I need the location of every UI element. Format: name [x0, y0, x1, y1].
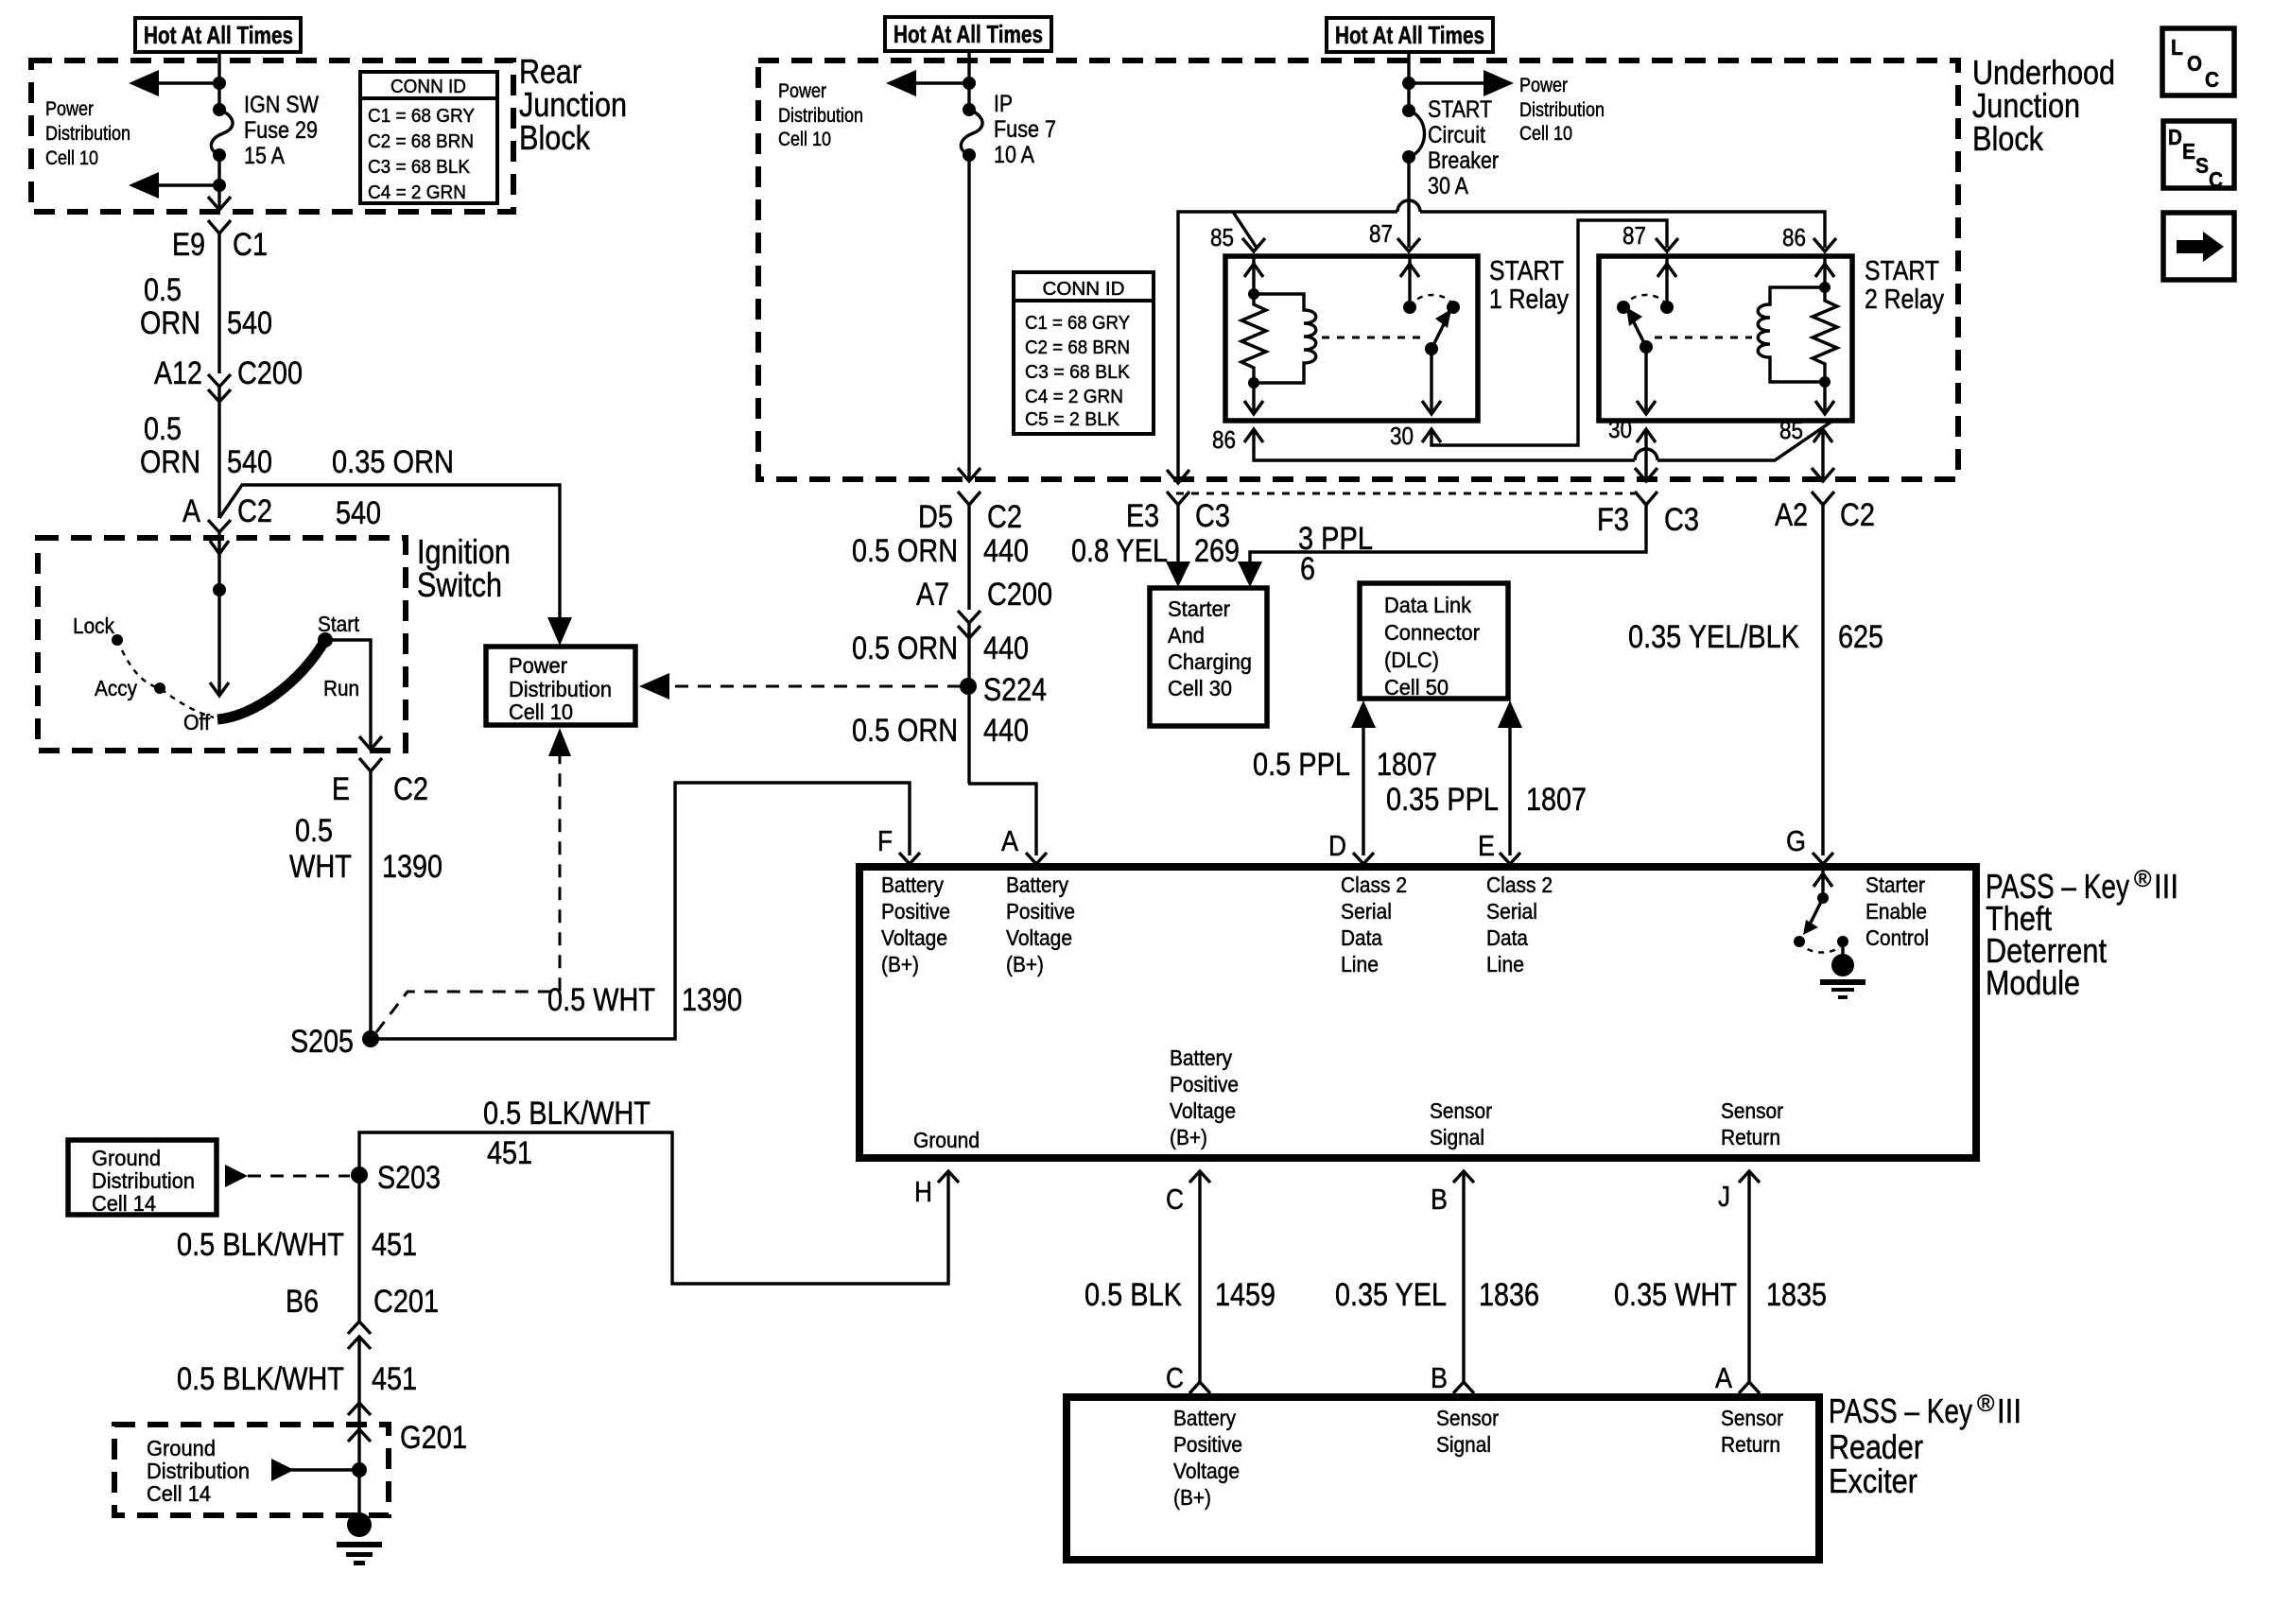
svg-text:C3: C3: [1664, 502, 1699, 538]
label 0.5 BLK/WHT 451 (mid): [177, 1227, 417, 1263]
svg-text:A7: A7: [916, 577, 949, 613]
rear junction block dashed box: [31, 60, 513, 212]
svg-text:G201: G201: [400, 1420, 467, 1456]
label 0.35 ORN 540: [332, 444, 454, 531]
svg-text:C200: C200: [237, 355, 303, 391]
connector C2 pin E chevron: [332, 758, 428, 807]
svg-text:F3: F3: [1597, 502, 1629, 538]
label class 2 serial data line E: [1486, 872, 1553, 976]
label Power Distribution Cell 10 (underhood left): [778, 80, 863, 150]
label 0.5 WHT 1390 (vertical run): [289, 813, 442, 885]
svg-text:451: 451: [372, 1361, 417, 1397]
wire 451 S203 down: [357, 1175, 360, 1321]
svg-text:Cell 10: Cell 10: [509, 700, 573, 724]
svg-text:Connector: Connector: [1384, 620, 1480, 645]
pin D chevron: [1328, 829, 1374, 864]
connector C200 pin A7 double chevron: [916, 577, 1052, 638]
svg-text:1835: 1835: [1766, 1277, 1827, 1313]
svg-text:Power: Power: [778, 80, 826, 102]
label battery positive voltage (reader C): [1173, 1406, 1242, 1510]
svg-text:Starter: Starter: [1168, 596, 1230, 621]
svg-text:S203: S203: [377, 1160, 441, 1196]
svg-text:C4 = 2 GRN: C4 = 2 GRN: [1025, 387, 1123, 407]
wire 440 to module pin A: [968, 784, 1036, 855]
svg-text:86: 86: [1782, 223, 1806, 251]
label 0.5 ORN 440 (1): [852, 533, 1029, 569]
svg-text:Line: Line: [1486, 952, 1524, 976]
svg-text:30: 30: [1390, 422, 1414, 450]
svg-text:Fuse 7: Fuse 7: [994, 116, 1056, 143]
svg-text:1459: 1459: [1215, 1277, 1275, 1313]
svg-text:B: B: [1431, 1183, 1448, 1216]
connector C1 chevron: [208, 220, 231, 233]
svg-text:Distribution: Distribution: [509, 677, 612, 701]
svg-text:0.5: 0.5: [144, 411, 182, 447]
svg-text:1807: 1807: [1377, 747, 1437, 783]
svg-text:0.5 ORN: 0.5 ORN: [852, 533, 958, 569]
ignition rotary contacts Lock Accy Off Start: [112, 632, 333, 719]
splice S205: [290, 1024, 379, 1060]
svg-text:D: D: [1328, 829, 1346, 862]
ground G201 dashed box: [114, 1420, 467, 1515]
label 0.5 BLK/WHT 451 (bottom): [177, 1361, 417, 1397]
svg-text:87: 87: [1622, 221, 1646, 250]
label battery positive voltage F: [881, 872, 950, 976]
svg-text:440: 440: [983, 533, 1029, 569]
svg-text:Block: Block: [519, 118, 591, 157]
fuse IP Fuse 7 symbol: [961, 103, 982, 162]
node junction dot lower: [213, 179, 226, 192]
svg-text:0.5 BLK/WHT: 0.5 BLK/WHT: [177, 1227, 344, 1263]
svg-text:E: E: [2182, 139, 2195, 164]
svg-text:1390: 1390: [382, 849, 442, 885]
svg-text:Distribution: Distribution: [778, 105, 863, 127]
svg-text:451: 451: [487, 1135, 532, 1171]
svg-text:Cell 10: Cell 10: [778, 129, 831, 150]
svg-text:A: A: [1001, 824, 1018, 857]
svg-text:C: C: [1166, 1361, 1184, 1394]
label 0.5 PPL 1807: [1253, 747, 1437, 783]
svg-text:0.8 YEL: 0.8 YEL: [1071, 533, 1168, 569]
label IGN SW Fuse 29 15 A: [244, 92, 319, 169]
svg-text:J: J: [1718, 1180, 1730, 1213]
label 3 PPL 6: [1298, 521, 1373, 587]
svg-text:Signal: Signal: [1430, 1125, 1484, 1149]
svg-text:C2 = 68 BRN: C2 = 68 BRN: [368, 131, 474, 152]
svg-text:Start: Start: [318, 612, 360, 636]
data link connector box: [1360, 583, 1508, 700]
connector C2 pin A2 chevron: [1775, 492, 1875, 533]
label IP Fuse 7 10 A: [994, 91, 1056, 168]
circuit breaker 30A symbol: [1402, 104, 1425, 164]
svg-text:B: B: [1431, 1361, 1448, 1394]
wire breaker to relay1 pin 87: [1407, 157, 1410, 248]
svg-text:A: A: [1715, 1361, 1732, 1394]
svg-text:Power: Power: [509, 653, 567, 678]
svg-text:Sensor: Sensor: [1721, 1098, 1783, 1123]
svg-text:C201: C201: [373, 1284, 439, 1320]
svg-text:86: 86: [1212, 425, 1236, 454]
node G201 junction dot: [352, 1462, 367, 1477]
CONN ID table (rear JB): [360, 72, 497, 203]
wire start contact to ignition box exit: [325, 640, 382, 750]
label 0.5 BLK 1459: [1084, 1277, 1275, 1313]
fuse F29 symbol: [211, 103, 233, 162]
connector C201 pin B6 double chevron: [286, 1284, 439, 1349]
svg-text:0.5 BLK/WHT: 0.5 BLK/WHT: [483, 1096, 651, 1132]
pin E chevron: [1478, 829, 1520, 864]
svg-text:Enable: Enable: [1865, 899, 1927, 924]
svg-text:G: G: [1786, 824, 1806, 857]
svg-text:Battery: Battery: [1170, 1045, 1232, 1070]
label 0.35 PPL 1807: [1386, 782, 1587, 818]
svg-text:Hot At All Times: Hot At All Times: [1335, 21, 1484, 49]
wire ground dist arrow to G201 node: [271, 1459, 357, 1481]
underhood junction block dashed box: [758, 60, 1958, 479]
svg-text:Cell 10: Cell 10: [1519, 123, 1572, 145]
icon DESC box: [2163, 121, 2234, 192]
svg-text:0.5: 0.5: [295, 813, 333, 849]
label Rear Junction Block: [519, 52, 627, 157]
svg-text:IGN SW: IGN SW: [244, 92, 319, 118]
svg-text:Accy: Accy: [95, 676, 137, 700]
svg-text:PASS – Key: PASS – Key: [1829, 1391, 1972, 1430]
pin G chevron: [1786, 824, 1833, 864]
svg-text:15 A: 15 A: [244, 143, 285, 169]
label sensor signal B: [1430, 1098, 1492, 1149]
svg-text:C1: C1: [233, 227, 268, 263]
svg-text:D: D: [2168, 125, 2182, 149]
svg-text:C: C: [2205, 67, 2219, 92]
hot-at-all-times box 3: [1327, 18, 1493, 52]
relay2 switch: [1617, 256, 1676, 414]
wire 3 PPL 6 from F3 to starter cell: [1238, 505, 1646, 587]
label PASS-Key III reader exciter: [1829, 1391, 2021, 1500]
pin 87 chevron relay2: [1622, 221, 1678, 251]
relay2 coil inductor: [1758, 287, 1825, 382]
wire 451 S203 to module pin H: [359, 1132, 948, 1284]
svg-text:III: III: [2154, 867, 2178, 906]
label Off: [183, 710, 211, 734]
node ignition feed dot: [213, 583, 226, 596]
svg-text:1 Relay: 1 Relay: [1489, 285, 1569, 315]
svg-text:0.5 BLK/WHT: 0.5 BLK/WHT: [177, 1361, 344, 1397]
svg-text:C1 = 68 GRY: C1 = 68 GRY: [1025, 313, 1130, 334]
svg-text:269: 269: [1194, 533, 1240, 569]
svg-text:Battery: Battery: [1173, 1406, 1236, 1430]
dashed wire ground dist to S203 with arrowhead: [225, 1165, 350, 1187]
label Underhood Junction Block: [1972, 53, 2115, 158]
svg-text:C3: C3: [1195, 498, 1230, 534]
label starter enable control: [1865, 872, 1929, 950]
svg-text:0.35 YEL: 0.35 YEL: [1335, 1277, 1447, 1313]
dashed wire from S205 up into PDC box bottom: [376, 728, 571, 1032]
wire 540 segment 2: [217, 387, 220, 518]
svg-text:Run: Run: [323, 676, 359, 700]
svg-text:(DLC): (DLC): [1384, 648, 1439, 672]
wire relay2 pin30 down to F3: [1635, 430, 1657, 481]
svg-text:Distribution: Distribution: [45, 123, 130, 145]
svg-text:C2: C2: [393, 771, 428, 807]
pass-key III reader exciter box: [1067, 1397, 1819, 1560]
svg-text:0.35 YEL/BLK: 0.35 YEL/BLK: [1628, 619, 1799, 655]
svg-text:ORN: ORN: [140, 444, 200, 480]
svg-text:O: O: [2187, 51, 2202, 76]
relay1 resistor: [1241, 294, 1266, 383]
connector C3 pin E3 chevron: [1126, 492, 1230, 534]
svg-text:Battery: Battery: [1006, 872, 1068, 897]
svg-text:Off: Off: [183, 710, 211, 734]
label 0.35 WHT 1835: [1614, 1277, 1827, 1313]
svg-text:Breaker: Breaker: [1428, 147, 1499, 174]
svg-text:L: L: [2171, 35, 2183, 60]
svg-text:B6: B6: [286, 1284, 319, 1320]
svg-text:Fuse 29: Fuse 29: [244, 117, 318, 144]
pin A chevron: [1001, 824, 1047, 864]
label sensor signal (reader B): [1436, 1406, 1499, 1457]
svg-text:C3 = 68 BLK: C3 = 68 BLK: [1025, 362, 1131, 383]
label battery positive voltage C: [1170, 1045, 1239, 1149]
wire hot2 into underhood box: [967, 51, 970, 110]
label E9 C1: [172, 227, 268, 263]
svg-text:Hot At All Times: Hot At All Times: [144, 21, 293, 49]
svg-text:(B+): (B+): [881, 952, 919, 976]
svg-text:E: E: [1478, 829, 1495, 862]
svg-text:Cell 50: Cell 50: [1384, 675, 1449, 700]
pin 85 chevron relay1: [1210, 223, 1265, 251]
label C reader pin: [1166, 1361, 1184, 1394]
pin 87 chevron relay1: [1369, 219, 1420, 251]
svg-text:0.35 PPL: 0.35 PPL: [1386, 782, 1499, 818]
svg-text:F: F: [877, 824, 893, 857]
svg-text:E3: E3: [1126, 498, 1159, 534]
svg-text:Switch: Switch: [417, 565, 502, 604]
label sensor return J: [1721, 1098, 1783, 1149]
label Power Distribution Cell 10 (breaker feed): [1519, 75, 1605, 145]
svg-text:®: ®: [1977, 1391, 1995, 1417]
svg-text:Positive: Positive: [1170, 1072, 1239, 1097]
power distribution cell 10 box: [486, 647, 635, 725]
svg-text:Power: Power: [1519, 75, 1568, 96]
wire left feed lower with arrowhead: [129, 172, 219, 199]
connector C200 double chevron: [154, 355, 303, 402]
svg-text:1836: 1836: [1479, 1277, 1539, 1313]
svg-text:30: 30: [1608, 415, 1632, 443]
node junction dot ip feed: [963, 77, 976, 90]
svg-text:Ground: Ground: [913, 1128, 980, 1152]
pass-key III theft deterrent module box: [859, 867, 1976, 1158]
pin 86 chevron relay1 bottom: [1212, 425, 1263, 454]
ground symbol starter enable: [1820, 942, 1865, 999]
wire bus y224 E3 to relay2 86 with hop: [1167, 200, 1825, 483]
icon LOC box: [2162, 28, 2234, 95]
svg-text:H: H: [914, 1175, 932, 1208]
svg-text:Line: Line: [1341, 952, 1379, 976]
wire relay2 pin85 diagonal to relay1 pin86 with hop: [1254, 422, 1831, 460]
wire 0.5 BLK 1459 pin C: [1189, 1173, 1210, 1393]
label A reader pin: [1715, 1361, 1732, 1394]
wire relay1 pin30 to relay2 pin87: [1431, 220, 1667, 445]
svg-text:C: C: [1166, 1183, 1184, 1216]
svg-text:540: 540: [227, 444, 272, 480]
label Ignition Switch: [417, 532, 511, 604]
splice S224: [960, 672, 1047, 708]
svg-text:Starter: Starter: [1865, 872, 1925, 897]
svg-text:Ground: Ground: [147, 1436, 216, 1460]
node junction dot upper: [213, 77, 226, 90]
svg-text:Circuit: Circuit: [1428, 122, 1485, 148]
svg-text:Power: Power: [45, 98, 94, 120]
svg-text:540: 540: [227, 305, 272, 341]
start 1 relay box: [1225, 256, 1478, 421]
pin F chevron: [877, 824, 920, 864]
label 0.5 ORN 440 (2): [852, 631, 1029, 666]
svg-text:Class 2: Class 2: [1486, 872, 1553, 897]
hot-at-all-times box 1: [135, 18, 301, 52]
svg-text:Ground: Ground: [92, 1146, 161, 1170]
wire into ignition switch with arrowhead: [210, 532, 229, 696]
svg-text:C2 = 68 BRN: C2 = 68 BRN: [1025, 337, 1130, 358]
label 0.5 ORN 540 (2): [140, 411, 272, 480]
svg-text:Exciter: Exciter: [1829, 1461, 1917, 1500]
svg-text:2 Relay: 2 Relay: [1865, 285, 1944, 315]
wire 0.35 YEL/BLK 625 A2 to pin G: [1821, 505, 1824, 855]
connector C2 pin A with branch slash: [182, 493, 272, 532]
wire 540 segment 1: [217, 233, 220, 373]
svg-text:III: III: [1997, 1391, 2021, 1430]
label Run: [323, 676, 359, 700]
wire from Hot box into rear JB: [217, 52, 220, 110]
starter enable control switch: [1794, 867, 1848, 953]
svg-text:Positive: Positive: [1006, 899, 1075, 924]
svg-text:A2: A2: [1775, 497, 1808, 533]
svg-text:Serial: Serial: [1486, 899, 1537, 924]
wire 1390 down to S205: [369, 771, 372, 1039]
svg-text:A12: A12: [154, 355, 202, 391]
svg-text:Module: Module: [1986, 963, 2080, 1002]
relay2 coil leg with arrows: [1815, 256, 1834, 414]
label 0.35 YEL 1836: [1335, 1277, 1539, 1313]
svg-text:540: 540: [336, 495, 381, 531]
label battery positive voltage A: [1006, 872, 1075, 976]
svg-text:Voltage: Voltage: [1006, 925, 1072, 950]
pin 30 chevron relay1 bottom: [1390, 422, 1441, 450]
svg-text:S224: S224: [983, 672, 1047, 708]
svg-text:IP: IP: [994, 91, 1013, 117]
pin B chevron: [1431, 1171, 1474, 1216]
svg-text:0.35 WHT: 0.35 WHT: [1614, 1277, 1737, 1313]
svg-text:Distribution: Distribution: [1519, 99, 1605, 121]
label START 1 Relay: [1489, 256, 1569, 315]
label Start: [318, 612, 360, 636]
svg-text:0.5 BLK: 0.5 BLK: [1084, 1277, 1182, 1313]
svg-text:Positive: Positive: [1173, 1432, 1242, 1457]
wire 0.8 YEL 269 to starter cell: [1166, 505, 1190, 587]
label Accy: [95, 676, 137, 700]
svg-text:Serial: Serial: [1341, 899, 1392, 924]
svg-text:(B+): (B+): [1006, 952, 1044, 976]
svg-text:440: 440: [983, 713, 1029, 749]
splice S203: [351, 1160, 441, 1196]
connector C3 pin F3 chevron: [1597, 492, 1699, 538]
relay1 coil leg with arrows: [1244, 256, 1263, 414]
svg-text:C4 = 2 GRN: C4 = 2 GRN: [368, 182, 466, 203]
svg-text:Voltage: Voltage: [881, 925, 947, 950]
svg-text:87: 87: [1369, 219, 1393, 248]
wire fuse7 down to box exit: [958, 155, 980, 481]
svg-text:C3 = 68 BLK: C3 = 68 BLK: [368, 157, 471, 178]
svg-text:Voltage: Voltage: [1170, 1098, 1236, 1123]
svg-text:85: 85: [1210, 223, 1234, 251]
svg-text:START: START: [1865, 256, 1939, 286]
label 0.5 ORN 540 (1): [140, 272, 272, 341]
label START Circuit Breaker 30 A: [1428, 96, 1499, 199]
wire 440 segment 2: [967, 623, 970, 784]
svg-text:Sensor: Sensor: [1436, 1406, 1499, 1430]
label ground distribution cell 14 (G201): [147, 1436, 250, 1506]
svg-text:And: And: [1168, 623, 1205, 648]
svg-text:Hot At All Times: Hot At All Times: [894, 20, 1043, 48]
svg-text:C2: C2: [987, 499, 1022, 535]
relay1 coil to switch dashed link: [1322, 337, 1422, 339]
svg-text:S205: S205: [290, 1024, 354, 1060]
wire 0.35 YEL 1836 pin B: [1453, 1173, 1474, 1393]
label Power Distribution Cell 10 (rear JB): [45, 98, 130, 169]
pin H chevron: [914, 1171, 959, 1208]
pin 86 chevron relay2: [1782, 223, 1836, 251]
svg-text:Return: Return: [1721, 1125, 1780, 1149]
starter and charging box: [1150, 588, 1267, 726]
svg-text:E9: E9: [172, 227, 205, 263]
label 0.5 WHT 1390 (horizontal run): [547, 982, 742, 1018]
svg-text:Class 2: Class 2: [1341, 872, 1407, 897]
wire 0.35 PPL 1807 pin E to DLC: [1498, 700, 1522, 855]
svg-text:ORN: ORN: [140, 305, 200, 341]
wire 440 segment 1: [967, 505, 970, 610]
svg-text:1390: 1390: [682, 982, 742, 1018]
svg-text:0.5 ORN: 0.5 ORN: [852, 713, 958, 749]
svg-text:CONN ID: CONN ID: [390, 77, 466, 97]
svg-text:Cell 14: Cell 14: [92, 1191, 156, 1216]
relay2 coil to switch dashed link: [1655, 337, 1752, 339]
wire to ground terminal: [357, 1429, 360, 1524]
label 0.5 ORN 440 (3): [852, 713, 1029, 749]
svg-text:440: 440: [983, 631, 1029, 666]
pin J chevron: [1718, 1171, 1760, 1213]
svg-text:Distribution: Distribution: [92, 1168, 195, 1193]
node junction dot breaker feed: [1402, 77, 1415, 90]
wire fuse to box exit: [208, 155, 231, 210]
wire right feed with arrowhead: [1409, 70, 1514, 96]
svg-text:Sensor: Sensor: [1430, 1098, 1492, 1123]
dashed wire from S224 into PDC box with arrowhead: [639, 673, 961, 700]
relay2 resistor: [1813, 287, 1837, 382]
svg-text:Distribution: Distribution: [147, 1459, 250, 1483]
svg-text:®: ®: [2134, 866, 2152, 892]
svg-text:10 A: 10 A: [994, 142, 1034, 168]
svg-text:Cell 30: Cell 30: [1168, 676, 1232, 700]
svg-text:START: START: [1489, 256, 1564, 286]
label PASS-Key III theft deterrent module: [1986, 866, 2178, 1002]
svg-text:Block: Block: [1972, 119, 2044, 158]
svg-text:Control: Control: [1865, 925, 1929, 950]
svg-text:C2: C2: [237, 493, 272, 529]
relay1 switch: [1400, 256, 1460, 414]
wire hot3 into underhood box: [1407, 52, 1410, 111]
svg-text:Data Link: Data Link: [1384, 593, 1471, 617]
wire 451 C201 to G201: [348, 1337, 371, 1442]
svg-text:85: 85: [1779, 416, 1803, 444]
